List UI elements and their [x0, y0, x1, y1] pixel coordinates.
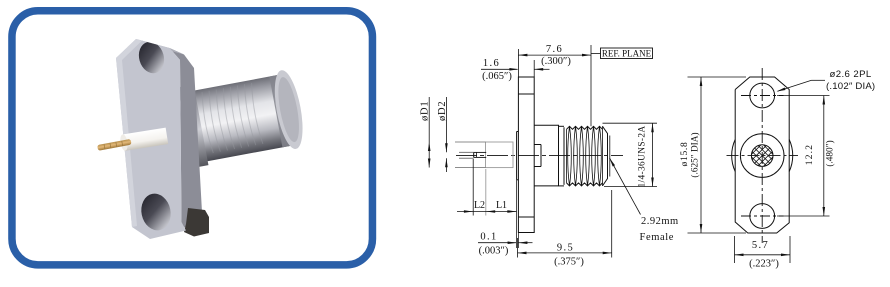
- thread profile 1/4-36UNS: [567, 126, 603, 129]
- dimension phi15.8 (.625" DIA): [688, 76, 747, 78]
- mounting hole top: [750, 83, 775, 108]
- thread callout 1/4-36UNS-2A: [603, 122, 658, 124]
- svg-text:9.5: 9.5: [557, 243, 574, 254]
- dimension 12.2 (.480"): [777, 95, 830, 97]
- flange side arc right: [789, 140, 793, 172]
- svg-text:1/4-36UNS-2A: 1/4-36UNS-2A: [638, 125, 648, 187]
- mounting hole bottom: [750, 204, 775, 229]
- body notch: [534, 144, 541, 146]
- pin extension lines phiD2: [459, 151, 474, 153]
- bore (gray): [486, 142, 514, 168]
- svg-text:(.223″): (.223″): [749, 259, 779, 270]
- dielectric face step: [516, 132, 518, 180]
- flange side arc left: [732, 140, 736, 172]
- svg-text:0.1: 0.1: [480, 232, 497, 243]
- svg-text:L1: L1: [496, 200, 507, 211]
- 3D mounting hole top: [135, 39, 167, 77]
- svg-text:REF. PLANE: REF. PLANE: [602, 49, 652, 59]
- hole centerline top: [741, 95, 784, 97]
- svg-text:(.065″): (.065″): [482, 71, 512, 82]
- center pin (section): [473, 152, 475, 157]
- svg-text:(.102″ DIA): (.102″ DIA): [826, 81, 875, 92]
- leader 2.92mm Female: [610, 158, 641, 215]
- svg-text:5.7: 5.7: [752, 240, 769, 251]
- dimension 9.5 (.375"): [517, 238, 519, 258]
- thread relief: [559, 125, 565, 127]
- svg-text:ø15.8: ø15.8: [680, 142, 690, 167]
- svg-text:L2: L2: [474, 200, 485, 211]
- dimensions L2 L1: [472, 159, 474, 216]
- horizontal centerline: [727, 155, 799, 157]
- 3D flange plate: [116, 39, 209, 239]
- svg-text:ø2.6 2PL: ø2.6 2PL: [830, 69, 872, 80]
- section view: [420, 44, 679, 268]
- interface outer circle: [740, 134, 784, 178]
- flange chamfer line top: [518, 93, 534, 95]
- bore extension lines phiD1: [455, 141, 486, 143]
- svg-text:(.625″ DIA): (.625″ DIA): [690, 132, 701, 177]
- svg-text:(.300″): (.300″): [541, 56, 571, 67]
- svg-text:øD2: øD2: [437, 101, 448, 121]
- hole centerline bottom: [741, 215, 784, 217]
- svg-text:(.003″): (.003″): [479, 246, 509, 257]
- svg-text:12.2: 12.2: [805, 144, 815, 165]
- svg-text:øD1: øD1: [420, 101, 431, 121]
- 3D mounting hole bottom: [138, 191, 174, 233]
- dimension 0.1 (.003"): [517, 233, 519, 249]
- flange front view: [680, 68, 802, 243]
- 3D dielectric sleeve: [119, 128, 168, 152]
- dimension 5.7 (.223"): [734, 236, 736, 263]
- 3D boss behind flange: [178, 85, 209, 169]
- centerline (section axis): [456, 155, 623, 157]
- blue rounded border frame: [12, 11, 373, 265]
- mating face end: [602, 126, 604, 186]
- 3D connector render: [97, 39, 308, 239]
- dimension 7.6 (.300"): [590, 45, 592, 126]
- dielectric circle hatched: [751, 145, 773, 167]
- svg-text:Female: Female: [640, 232, 675, 243]
- 3D center pin: [97, 139, 131, 151]
- flange chamfer line bottom: [518, 216, 534, 218]
- svg-text:(.480″): (.480″): [825, 140, 836, 166]
- svg-text:(.375″): (.375″): [554, 257, 584, 268]
- flange plate (section): [518, 77, 534, 233]
- REF. PLANE label: [601, 48, 653, 59]
- dimension phiD1: [428, 97, 430, 168]
- flange outline (front): [735, 77, 789, 233]
- svg-text:1.6: 1.6: [483, 58, 500, 69]
- svg-text:2.92mm: 2.92mm: [641, 216, 679, 227]
- 3D coupling barrel (threaded body): [189, 68, 308, 166]
- connector body (section): [534, 125, 558, 186]
- vertical centerline: [761, 68, 763, 243]
- dimension phiD2: [445, 97, 447, 152]
- svg-text:7.6: 7.6: [546, 44, 563, 55]
- dimension 1.6 (.065") flange thickness: [517, 49, 519, 77]
